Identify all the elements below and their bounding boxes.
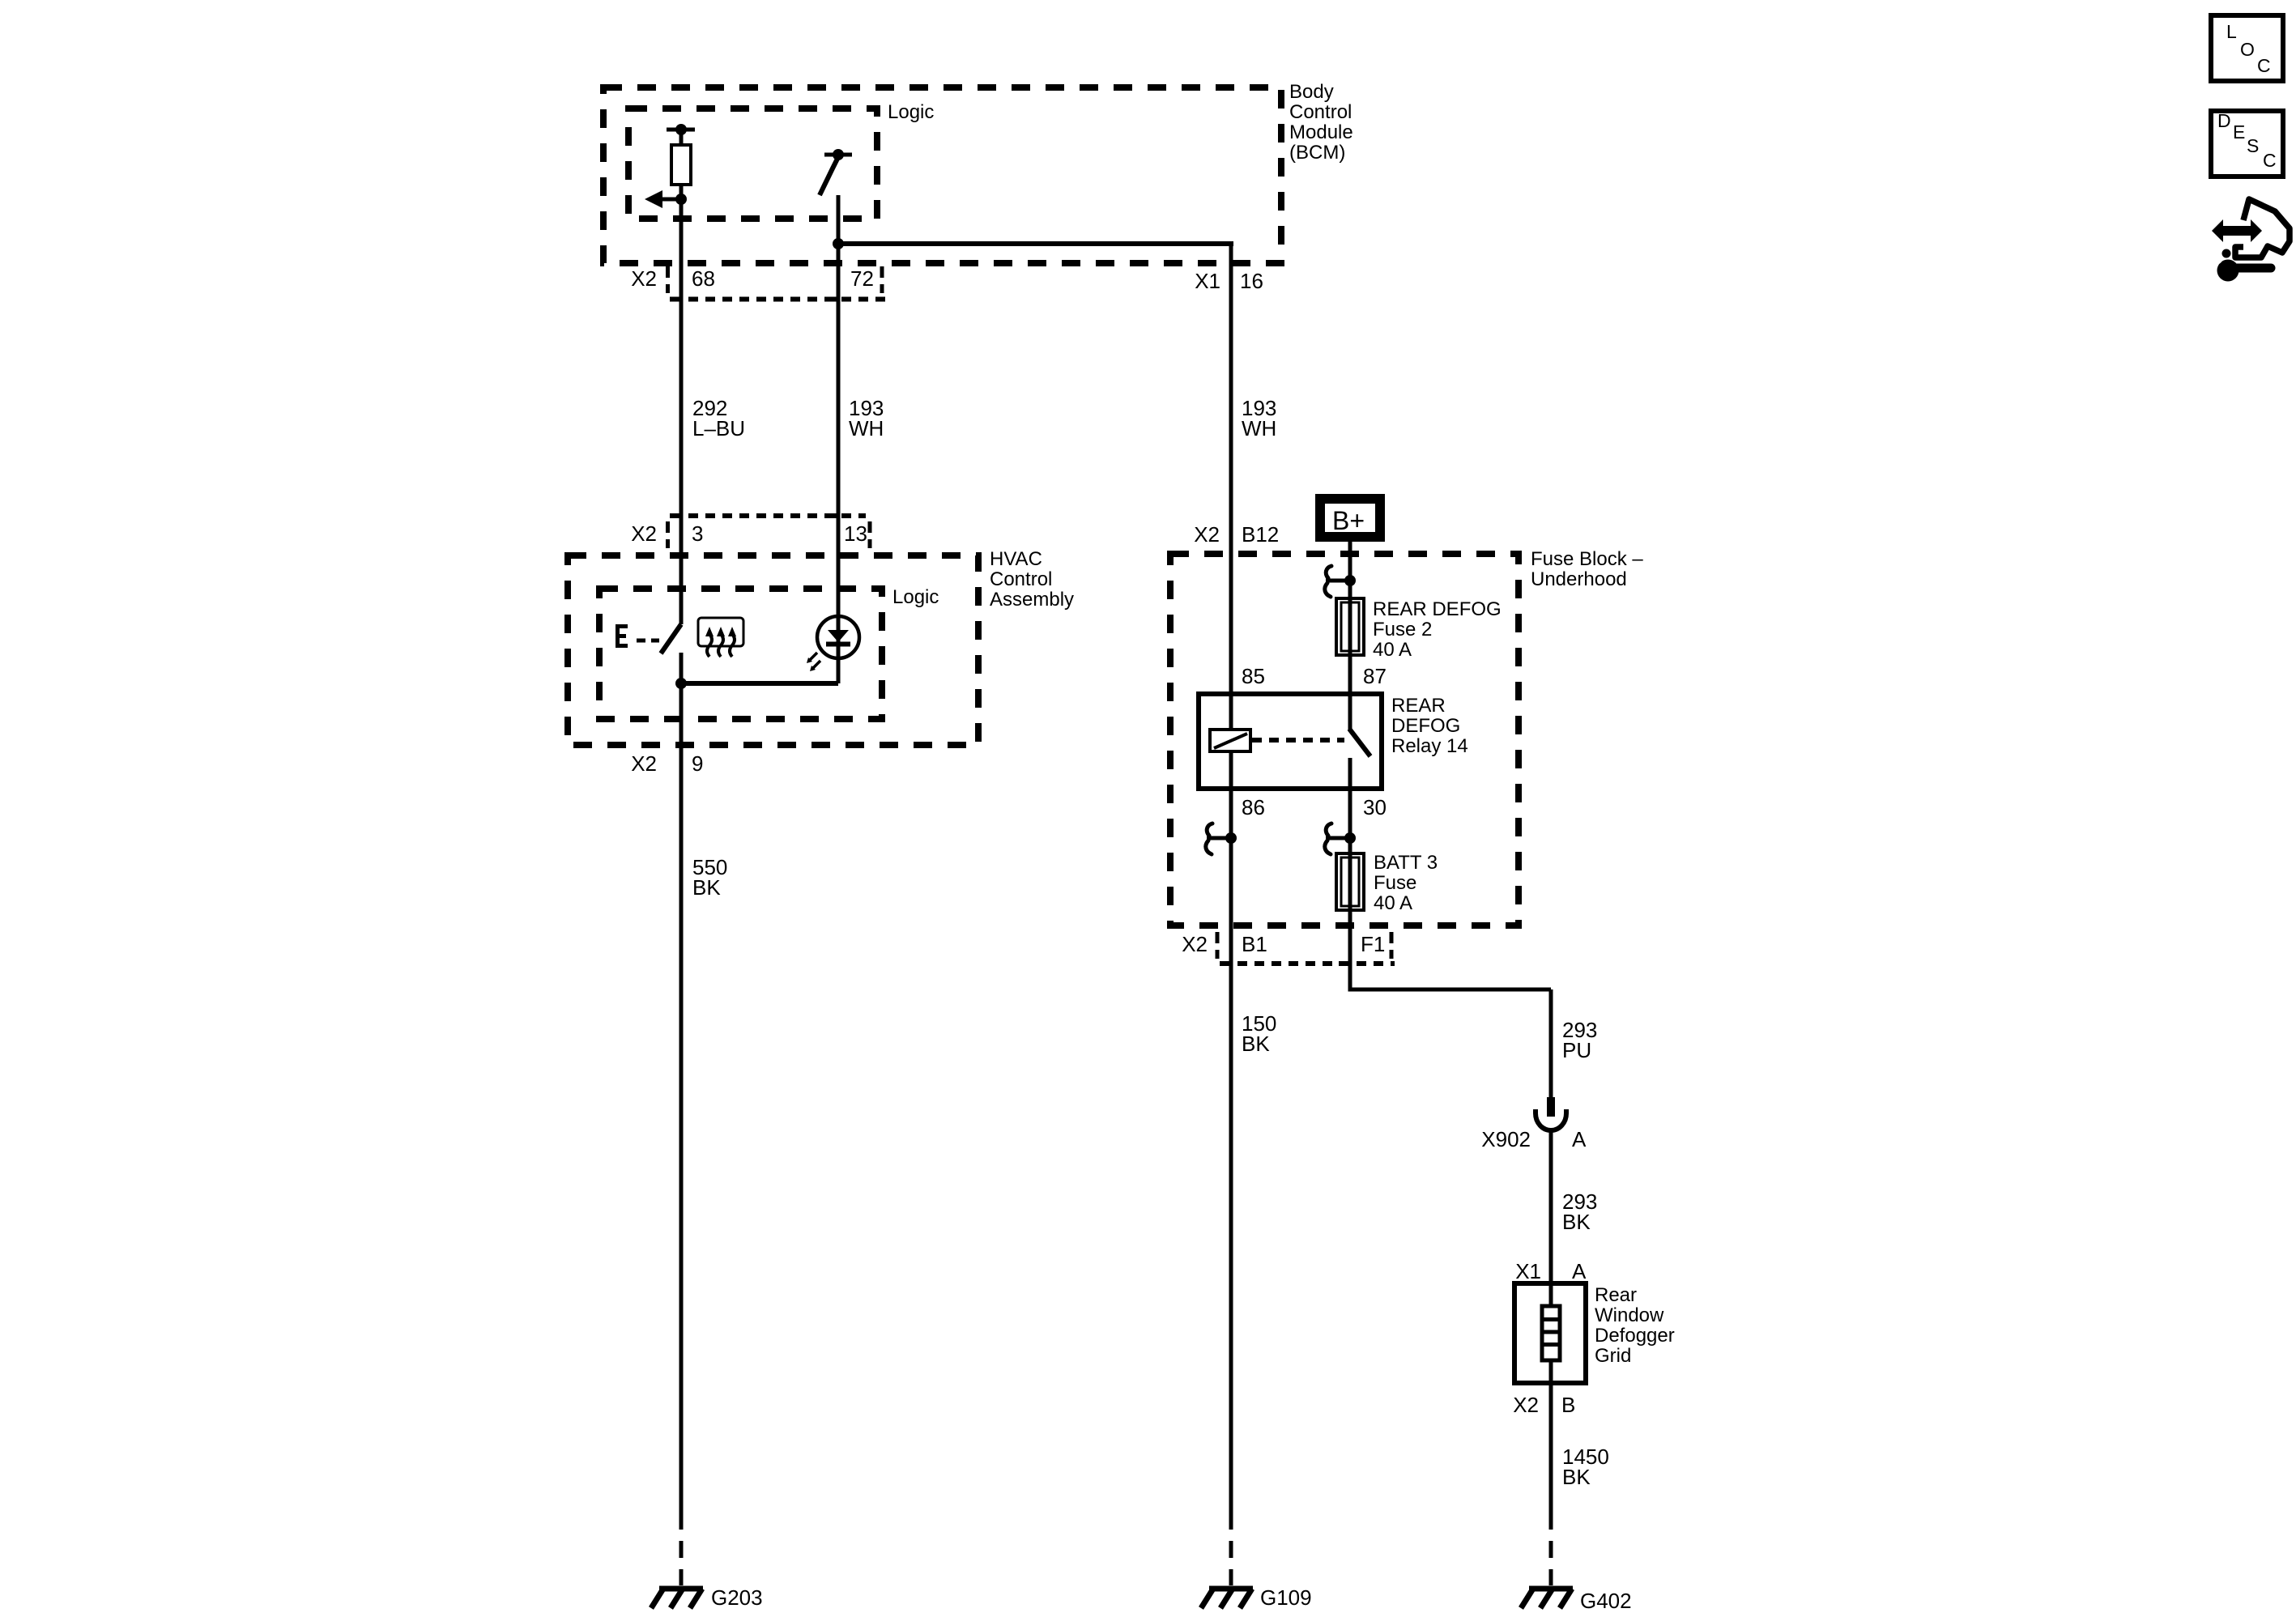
svg-text:REAR: REAR — [1391, 695, 1446, 717]
svg-text:PU: PU — [1562, 1038, 1591, 1062]
wire: 193 WH (BCM X1-16 down to fuse block relay coil) — [1229, 241, 1233, 731]
svg-text:F1: F1 — [1361, 932, 1385, 956]
icon: LOC reference box — [2211, 15, 2283, 81]
label: Body Control Module (BCM) — [1289, 81, 1353, 164]
svg-text:Underhood: Underhood — [1531, 568, 1627, 590]
element: defogger grid heating element — [1542, 1306, 1560, 1360]
svg-text:X2: X2 — [631, 521, 657, 546]
connector X902 (inline, pin A) — [1536, 1097, 1566, 1130]
svg-text:HVAC: HVAC — [990, 548, 1042, 570]
connector row: HVAC X2 pin 9 — [631, 751, 703, 776]
box: Fuse Block - Underhood — [1170, 554, 1519, 926]
svg-text:B: B — [1561, 1393, 1575, 1417]
svg-text:86: 86 — [1242, 795, 1265, 819]
fuse: REAR DEFOG Fuse 2 40 A — [1336, 598, 1364, 655]
svg-text:X1: X1 — [1195, 269, 1220, 293]
svg-text:68: 68 — [692, 266, 715, 291]
svg-text:REAR DEFOG: REAR DEFOG — [1373, 598, 1502, 620]
svg-text:X1: X1 — [1515, 1259, 1541, 1283]
box: Body Control Module (BCM) outer — [603, 87, 1281, 263]
svg-text:16: 16 — [1240, 269, 1263, 293]
wire: relay 86 coil return down — [1229, 751, 1233, 1513]
connector row: HVAC X2 pins 3 / 13 — [631, 516, 870, 548]
label: wire 193 WH (right) — [1242, 396, 1276, 440]
ground G203 — [651, 1585, 763, 1610]
svg-text:Fuse Block –: Fuse Block – — [1531, 548, 1643, 570]
label: Logic (BCM) — [888, 101, 934, 123]
svg-text:Fuse: Fuse — [1374, 872, 1416, 894]
label: REAR DEFOG Fuse 2 40 A — [1373, 598, 1502, 661]
svg-text:Relay 14: Relay 14 — [1391, 735, 1468, 757]
label: wire 1450 BK — [1562, 1445, 1609, 1489]
icon: schematic navigation arrow with wrench — [2211, 199, 2290, 282]
box: HVAC Control Assembly outer — [568, 555, 978, 745]
relay coil — [1210, 730, 1250, 751]
node: resistor output w/ left arrow (signal out) — [645, 190, 687, 208]
label: wire 293 PU — [1562, 1018, 1597, 1062]
svg-text:B1: B1 — [1242, 932, 1267, 956]
svg-text:X902: X902 — [1481, 1127, 1531, 1151]
svg-text:40 A: 40 A — [1373, 639, 1412, 661]
svg-text:Defogger: Defogger — [1595, 1325, 1675, 1347]
svg-text:BATT 3: BATT 3 — [1374, 852, 1438, 874]
svg-text:Control: Control — [990, 568, 1052, 590]
svg-text:87: 87 — [1363, 664, 1387, 688]
wire: dashed ground lead G203 — [679, 1513, 684, 1585]
svg-text:A: A — [1572, 1259, 1587, 1283]
switch: HVAC defog request (E actuator) — [616, 624, 681, 653]
svg-text:C: C — [2263, 150, 2277, 171]
switch: BCM logic driver (pin 72) — [820, 149, 852, 195]
label: REAR DEFOG Relay 14 — [1391, 695, 1468, 757]
wire: 292/550 circuit below switch down to G203 — [679, 653, 684, 1513]
label: Rear Window Defogger Grid — [1595, 1284, 1675, 1367]
wire: 193 WH (BCM switch down to HVAC LED) — [837, 195, 841, 683]
svg-text:Fuse 2: Fuse 2 — [1373, 619, 1432, 640]
svg-text:X2: X2 — [1182, 932, 1208, 956]
connector row: fuse block X2 pin B12 — [1194, 522, 1279, 547]
relay: REAR DEFOG Relay 14 box — [1199, 694, 1382, 789]
svg-text:G203: G203 — [711, 1585, 763, 1610]
pin labels: relay 85 / 87 — [1242, 664, 1387, 688]
wire: 292 L-BU upper (resistor to HVAC switch) — [679, 185, 684, 624]
svg-text:B+: B+ — [1332, 506, 1365, 535]
connector row: defogger X2 pin B — [1513, 1393, 1575, 1417]
ground G402 — [1521, 1589, 1632, 1613]
svg-text:BK: BK — [1242, 1032, 1270, 1056]
label: wire 292 L-BU — [692, 396, 745, 440]
svg-text:Logic: Logic — [892, 586, 939, 608]
wire: 293 BK down to defogger grid — [1549, 1129, 1553, 1513]
wire: relay 30 down through BATT 3 fuse and out F1 — [1350, 758, 1551, 989]
label: wire 293 BK — [1562, 1189, 1597, 1234]
svg-text:BK: BK — [1562, 1465, 1591, 1489]
ground G109 — [1201, 1585, 1312, 1610]
svg-text:L–BU: L–BU — [692, 416, 745, 440]
svg-text:E: E — [2233, 121, 2245, 143]
box: BCM internal Logic — [628, 109, 877, 219]
resistor R (BCM internal, pin X2-68 feed) — [667, 124, 695, 185]
connector row: BCM X1 pin 16 — [1195, 269, 1263, 293]
svg-text:X2: X2 — [1513, 1393, 1539, 1417]
svg-text:WH: WH — [1242, 416, 1276, 440]
power feed: B+ terminal — [1320, 499, 1380, 537]
label: wire 193 WH (left) — [849, 396, 884, 440]
svg-text:D: D — [2217, 110, 2231, 131]
connector row: BCM X2 pins 68 / 72 — [631, 266, 887, 300]
wire: dashed ground lead G109 — [1229, 1513, 1233, 1585]
label: HVAC Control Assembly — [990, 548, 1074, 611]
relay switch blade (87 to 30) — [1349, 729, 1370, 756]
label: wire 550 BK — [692, 855, 727, 900]
clip: fuse block bus tap at B+ feed — [1325, 566, 1356, 597]
svg-text:Window: Window — [1595, 1304, 1664, 1326]
icon: DESC reference box — [2211, 110, 2283, 177]
relay actuation dashed link — [1252, 738, 1344, 743]
label: wire 150 BK — [1242, 1011, 1276, 1056]
clip: fuse block bus tap at relay 30 — [1325, 823, 1356, 854]
box: Rear Window Defogger Grid — [1514, 1283, 1586, 1383]
label: BATT 3 Fuse 40 A — [1374, 852, 1438, 914]
wire: B+ feed down to relay 87 — [1348, 542, 1352, 730]
svg-text:(BCM): (BCM) — [1289, 142, 1345, 164]
svg-text:Assembly: Assembly — [990, 589, 1074, 611]
node: junction switch output / LED return — [675, 678, 687, 689]
svg-text:85: 85 — [1242, 664, 1265, 688]
svg-text:Logic: Logic — [888, 101, 934, 123]
svg-text:BK: BK — [1562, 1210, 1591, 1234]
svg-text:L: L — [2226, 21, 2237, 42]
svg-text:C: C — [2257, 55, 2271, 76]
wire: LED return horizontal to switch leg — [681, 681, 838, 686]
svg-text:BK: BK — [692, 875, 721, 900]
svg-text:G402: G402 — [1580, 1589, 1632, 1613]
svg-text:Module: Module — [1289, 121, 1353, 143]
wire: dashed ground lead G402 — [1549, 1513, 1553, 1585]
svg-text:13: 13 — [844, 521, 867, 546]
svg-text:S: S — [2247, 135, 2259, 156]
clip: fuse block bus tap at relay 86 — [1206, 823, 1237, 854]
svg-text:Rear: Rear — [1595, 1284, 1637, 1306]
label: Logic (HVAC) — [892, 586, 939, 608]
svg-text:B12: B12 — [1242, 522, 1279, 547]
svg-text:Grid: Grid — [1595, 1345, 1631, 1367]
svg-text:X2: X2 — [631, 751, 657, 776]
connector row: fuse block X2 B1 / F1 — [1182, 932, 1395, 964]
pin labels: relay 86 / 30 — [1242, 795, 1387, 819]
box: HVAC internal Logic — [599, 589, 882, 719]
svg-text:Body: Body — [1289, 81, 1334, 103]
label: Fuse Block - Underhood — [1531, 548, 1643, 590]
svg-text:WH: WH — [849, 416, 884, 440]
svg-text:9: 9 — [692, 751, 703, 776]
svg-text:G109: G109 — [1260, 1585, 1312, 1610]
svg-text:40 A: 40 A — [1374, 892, 1412, 914]
svg-text:X2: X2 — [1194, 522, 1220, 547]
svg-text:X2: X2 — [631, 266, 657, 291]
svg-text:3: 3 — [692, 521, 703, 546]
svg-text:O: O — [2240, 39, 2255, 60]
fuse: BATT 3 Fuse 40 A — [1336, 853, 1364, 910]
LED: defog indicator — [807, 616, 859, 671]
svg-text:DEFOG: DEFOG — [1391, 715, 1460, 737]
icon: heated rear window (defog) symbol — [698, 618, 743, 657]
wire: 193 WH horizontal run to BCM pin X1-16 — [838, 241, 1233, 246]
svg-text:30: 30 — [1363, 795, 1387, 819]
connector row: defogger X1 pin A — [1515, 1259, 1587, 1283]
node: junction wire 193 WH to X1-16 — [833, 238, 844, 249]
svg-text:72: 72 — [850, 266, 874, 291]
svg-text:A: A — [1572, 1127, 1587, 1151]
connector row: X902 pin A — [1481, 1127, 1587, 1151]
wire: 293 PU down to connector X902 — [1549, 989, 1553, 1099]
svg-text:Control: Control — [1289, 101, 1352, 123]
